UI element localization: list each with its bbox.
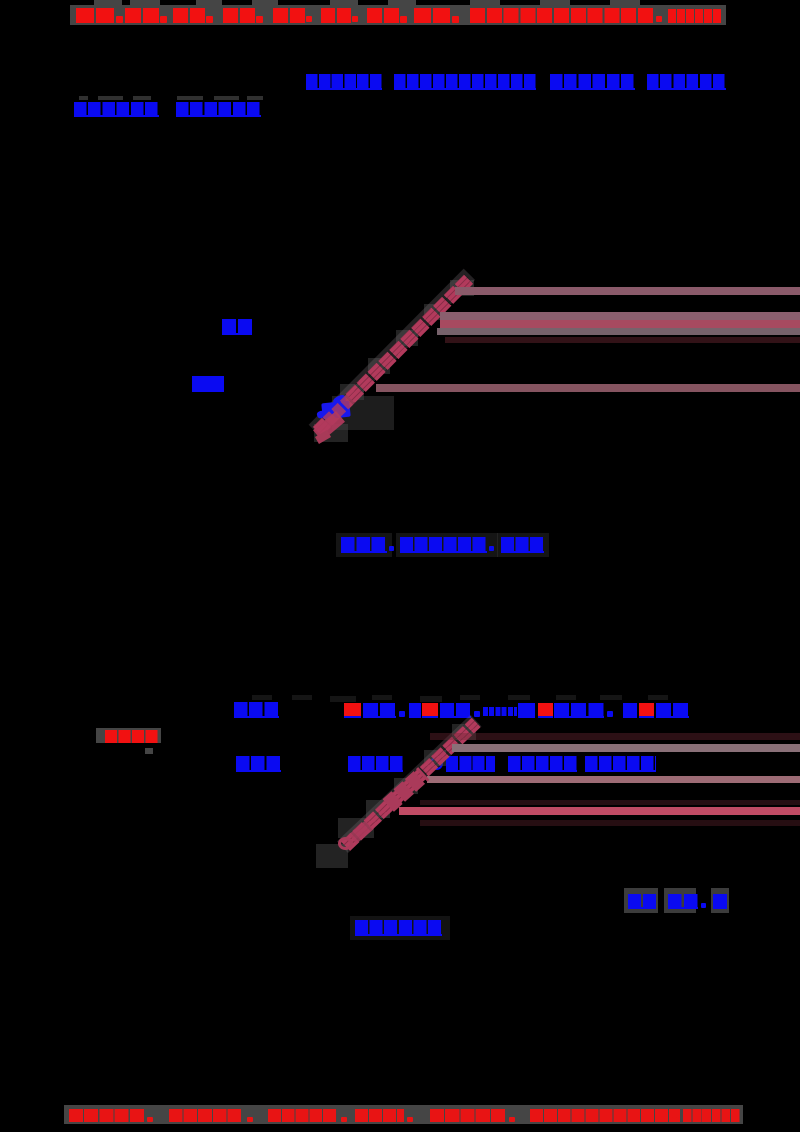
group 4 bbox=[223, 8, 256, 23]
bottom center link faint box bbox=[350, 916, 450, 940]
digits bbox=[668, 9, 721, 23]
group 3 bbox=[173, 8, 206, 23]
footer red text bbox=[69, 1109, 145, 1122]
keyword blue word 2 bbox=[192, 376, 224, 392]
bottom right trio bbox=[624, 888, 658, 913]
link row 2 bbox=[74, 102, 159, 117]
group 2 bbox=[125, 8, 160, 23]
group 5 bbox=[273, 8, 306, 23]
group 8 bbox=[414, 8, 451, 23]
blue stamp blob bbox=[321, 401, 351, 420]
long run bbox=[470, 8, 655, 23]
link row 3 faint boxes bbox=[336, 533, 392, 557]
watermark band 1 text bbox=[313, 274, 474, 436]
footer gray shading bbox=[64, 1105, 743, 1124]
item 4 bbox=[623, 703, 637, 718]
band1 bottom chunk over blob bbox=[323, 394, 356, 426]
group 7 bbox=[367, 8, 400, 23]
fittings row links bbox=[348, 756, 403, 772]
gray artifacts along watermark band 2 bbox=[452, 724, 476, 740]
item 3: 1.0MPa小字 bbox=[483, 707, 517, 716]
band 2 horizontal bars bbox=[430, 733, 800, 740]
top header gray shading band bbox=[70, 5, 726, 25]
watermark band 1 (diagonal) underlay bbox=[309, 269, 475, 436]
keyword blue word 1 bbox=[222, 319, 252, 335]
materials row gray flecks above bbox=[252, 695, 272, 700]
watermark band 2 text bbox=[341, 718, 481, 851]
link row 3 bbox=[341, 537, 387, 553]
materials row item 1 bbox=[344, 703, 361, 718]
watermark band 2 (diagonal) underlay bbox=[337, 715, 481, 853]
row: red label on gray bbox=[96, 734, 106, 743]
link row 1 bbox=[306, 74, 382, 90]
link row 2 : gray flecks bbox=[79, 96, 88, 100]
fittings row label bbox=[236, 756, 281, 772]
bottom center link bbox=[355, 920, 442, 936]
band 2 texture slits bbox=[341, 718, 481, 851]
gray artifacts along watermark band 1 bbox=[450, 280, 474, 296]
band 1 texture slits bbox=[313, 274, 474, 436]
band 1 horizontal bars bbox=[455, 287, 800, 295]
materials row label bbox=[234, 702, 279, 718]
group 6 bbox=[321, 8, 352, 23]
item 2 bbox=[409, 703, 421, 718]
top red header text: group 1 bbox=[76, 8, 115, 23]
band 2 extra blobs bbox=[382, 767, 429, 812]
